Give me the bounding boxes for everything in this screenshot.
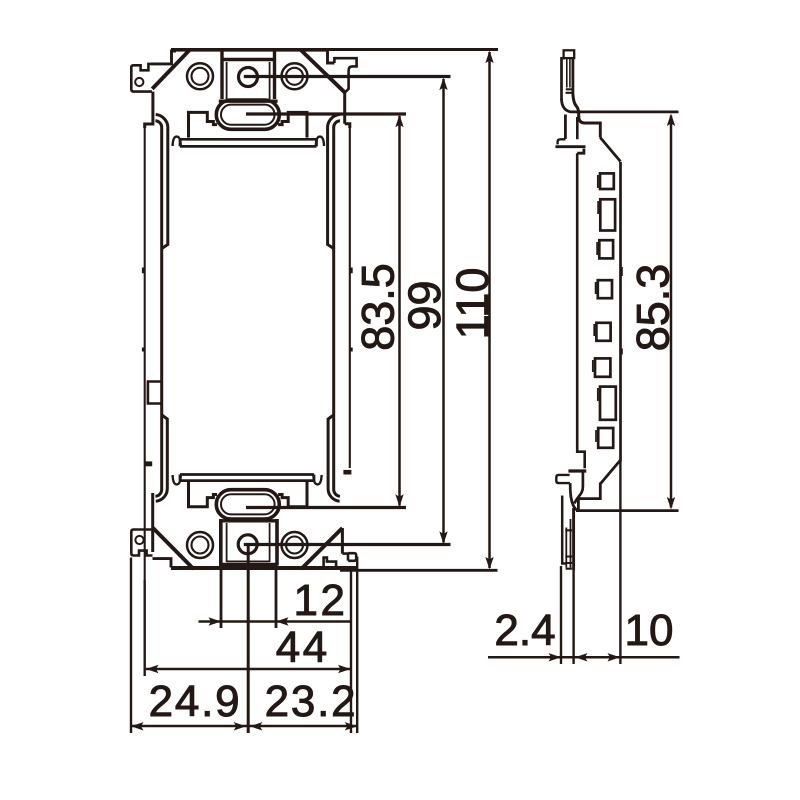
dimension 110 bottom leader — [340, 569, 498, 572]
front view: right edge below diagonal — [345, 92, 350, 128]
arrow 99 top — [439, 78, 447, 91]
side view: hook ticks — [566, 89, 573, 93]
front view: top-left diagonal — [152, 50, 190, 89]
dimension line 2.4/10 — [488, 656, 680, 659]
front view: bottom-right diagonal — [301, 528, 342, 569]
front view: top shelf — [180, 139, 317, 146]
side view: clamp inner lines — [566, 519, 570, 568]
svg-text:24.9: 24.9 — [149, 677, 242, 726]
front view: bottom center box top edge — [221, 519, 276, 522]
side view: bottom foot hook — [556, 475, 570, 483]
extension line ear left — [130, 558, 132, 734]
front view: top oval inner — [221, 105, 275, 125]
arrow 10 right — [608, 653, 621, 661]
side view: left face — [577, 117, 585, 468]
side view: slot 8 — [598, 428, 613, 448]
center line extension — [247, 545, 250, 733]
side view: upper sheet line — [564, 115, 567, 140]
arrow 44 left — [146, 665, 159, 673]
front view: bottom-left ear — [131, 530, 152, 556]
svg-text:10: 10 — [625, 606, 674, 655]
dimension 85.3 top leader — [576, 111, 679, 114]
dimension 99 bottom leader — [244, 543, 451, 546]
arrow 85.3 top — [667, 114, 675, 127]
svg-text:110: 110 — [447, 268, 498, 340]
side view: hook right wall — [572, 58, 575, 95]
front view: bottom shelf hump left — [173, 475, 181, 484]
side view: clamp ticks — [565, 530, 572, 568]
side view: bottom S-bend inner — [574, 471, 583, 504]
front view: bottom screw hole right outer — [282, 532, 308, 558]
front view: bottom shelf — [180, 475, 314, 481]
front view: top edge — [171, 48, 327, 52]
front view: top screw hole left inner — [192, 68, 209, 85]
front view: bottom-right notch piece — [324, 558, 337, 567]
side view: slot 4 — [598, 280, 612, 298]
side view: top shoulder chamfer — [600, 138, 620, 162]
front view: bottom shelf hump right — [313, 475, 321, 484]
front view: top-left ear hole — [135, 78, 143, 86]
arrow 85.3 bottom — [667, 497, 675, 510]
front view: left rail inner edge — [155, 121, 161, 496]
arrow 110 bottom — [485, 557, 493, 570]
arrow 12 left — [209, 617, 222, 625]
side view: plate right face — [572, 508, 575, 570]
front view: left edge ticks — [142, 268, 144, 352]
side view: bottom flange line — [578, 460, 620, 511]
side view: top S-bend outer — [562, 99, 579, 112]
front view: top-right diagonal — [301, 50, 345, 92]
front view: bottom oval outer — [216, 490, 279, 519]
side view: right face — [619, 162, 622, 462]
extension line plate left — [560, 566, 562, 664]
arrow 99 bottom — [439, 531, 447, 544]
extension line side right — [619, 462, 621, 665]
side view: slot 5 — [596, 323, 610, 341]
side view: slot cap marks — [593, 175, 598, 442]
front view: bottom-left diagonal — [153, 528, 194, 569]
side view: hook cap — [564, 50, 575, 58]
front view: top bracket left — [189, 112, 218, 137]
front view: right edge ticks — [350, 268, 352, 352]
front view: bottom screw hole right inner — [286, 537, 303, 554]
front view: bottom center box inner lines — [227, 523, 270, 562]
front view: bottom-left ear hole — [135, 536, 143, 544]
side view: top foot hook — [558, 139, 566, 144]
front view: right edge above bottom corner — [341, 528, 344, 554]
front view: top-right ear tab — [334, 58, 356, 92]
front view: right rail bottom hook — [328, 415, 340, 501]
arrow 44 right — [338, 665, 351, 673]
extension line frame left — [143, 580, 145, 676]
front view: top center box outer — [219, 51, 278, 102]
side view: hook inner channel — [567, 58, 570, 87]
front view: left edge above bottom ear — [151, 493, 154, 552]
side view: slot 1 — [600, 173, 614, 189]
front view: left edge bottom mark — [145, 461, 153, 466]
arrow 23.2 left — [250, 722, 262, 730]
dimension line 110 — [488, 52, 491, 568]
front view: top screw hole right inner — [286, 68, 303, 85]
svg-text:12: 12 — [294, 576, 348, 625]
front view: right rail inner edge — [334, 121, 340, 496]
side view: right face ticks — [621, 267, 623, 355]
svg-text:83.5: 83.5 — [353, 263, 404, 351]
arrow 24.9 left — [131, 722, 144, 730]
dimension 85.3 bottom leader — [576, 509, 679, 512]
front view: left rail outer hook — [156, 115, 168, 249]
front view: bottom bracket left — [189, 482, 218, 507]
arrow 24.9 right — [234, 722, 247, 730]
dimension line 85.3 — [670, 116, 673, 508]
side view: slot 6 — [595, 358, 610, 376]
arrow 23.2 right — [345, 722, 358, 730]
front view: top shelf hump left — [173, 137, 181, 146]
side view: bottom S-bend outer — [570, 483, 578, 511]
dimension 83.5 bottom leader — [246, 506, 406, 509]
svg-text:23.2: 23.2 — [265, 677, 358, 726]
svg-text:44: 44 — [276, 623, 330, 672]
dimension line 24.9/23.2 — [131, 725, 357, 728]
dimension line 44 — [146, 668, 351, 671]
front view: top screw hole left outer — [187, 63, 213, 89]
dimension 110 top leader — [326, 48, 498, 51]
side view: top flange line — [579, 116, 601, 138]
front view: bottom screw hole left outer — [187, 532, 213, 558]
front view: top oval outer — [216, 100, 279, 129]
front view: top bracket right — [278, 112, 307, 137]
side view: slot 7 — [600, 387, 616, 420]
front view: right rail outer hook — [328, 115, 340, 249]
front view: bottom screw hole left inner — [192, 537, 209, 554]
arrow 12 right — [276, 617, 289, 625]
front view: frame left edge — [144, 126, 146, 580]
side view: top S-bend inner — [573, 94, 579, 117]
front view: top-left ear — [131, 64, 152, 92]
front view: bottom-right ear tab — [348, 553, 356, 561]
front view: bottom center box bottom edge — [219, 563, 278, 566]
front view: top-right step — [328, 51, 335, 63]
extension line box right — [275, 570, 278, 628]
front view: bottom-right step — [342, 554, 348, 561]
front view: bottom center screw circle — [238, 535, 257, 554]
front view: left rail bottom hook — [156, 415, 168, 501]
side view: hook left wall — [562, 57, 565, 100]
front view: right edge bottom mark — [343, 470, 351, 475]
dimension line 83.5 — [398, 116, 401, 506]
front view: top shelf hump right — [316, 137, 324, 146]
front view: frame right edge — [349, 126, 351, 468]
dimension line 12 — [199, 620, 351, 623]
side view: slot 2 — [600, 199, 615, 230]
arrow 2.4 left — [549, 653, 562, 661]
extension line plate right — [572, 570, 574, 664]
front view: left edge below top ear — [145, 92, 153, 128]
svg-text:99: 99 — [399, 280, 450, 330]
front view: bottom-left step — [153, 559, 172, 568]
front view: top-left step — [151, 51, 176, 64]
arrow 83.5 bottom — [395, 494, 403, 507]
extension line ear right — [356, 557, 358, 734]
side view: plate left face — [562, 496, 566, 564]
arrow 10 left — [575, 653, 588, 661]
front view: bottom edge — [171, 566, 356, 570]
dimension 83.5 top leader — [246, 112, 406, 115]
front view: top center screw circle — [239, 68, 258, 87]
side view: slot 3 — [599, 240, 613, 258]
extension line frame right — [350, 570, 352, 733]
side view: bottom foot bar — [568, 469, 586, 472]
front view: bottom center box outer — [221, 519, 277, 566]
front view: left rail notch — [148, 382, 162, 404]
arrow 110 top — [485, 51, 493, 64]
arrow 83.5 top — [395, 115, 403, 128]
front view: top screw hole right outer — [282, 63, 308, 89]
side view: top foot bar — [555, 147, 585, 154]
dimension 99 top leader — [244, 75, 451, 78]
extension line box left — [220, 570, 223, 628]
front view: bottom oval inner — [221, 494, 275, 514]
front view: top center box inner lines — [227, 62, 270, 99]
svg-text:85.3: 85.3 — [628, 264, 679, 352]
front view: bottom bracket right — [278, 482, 307, 507]
svg-text:2.4: 2.4 — [494, 606, 555, 655]
dimension line 99 — [442, 79, 445, 543]
